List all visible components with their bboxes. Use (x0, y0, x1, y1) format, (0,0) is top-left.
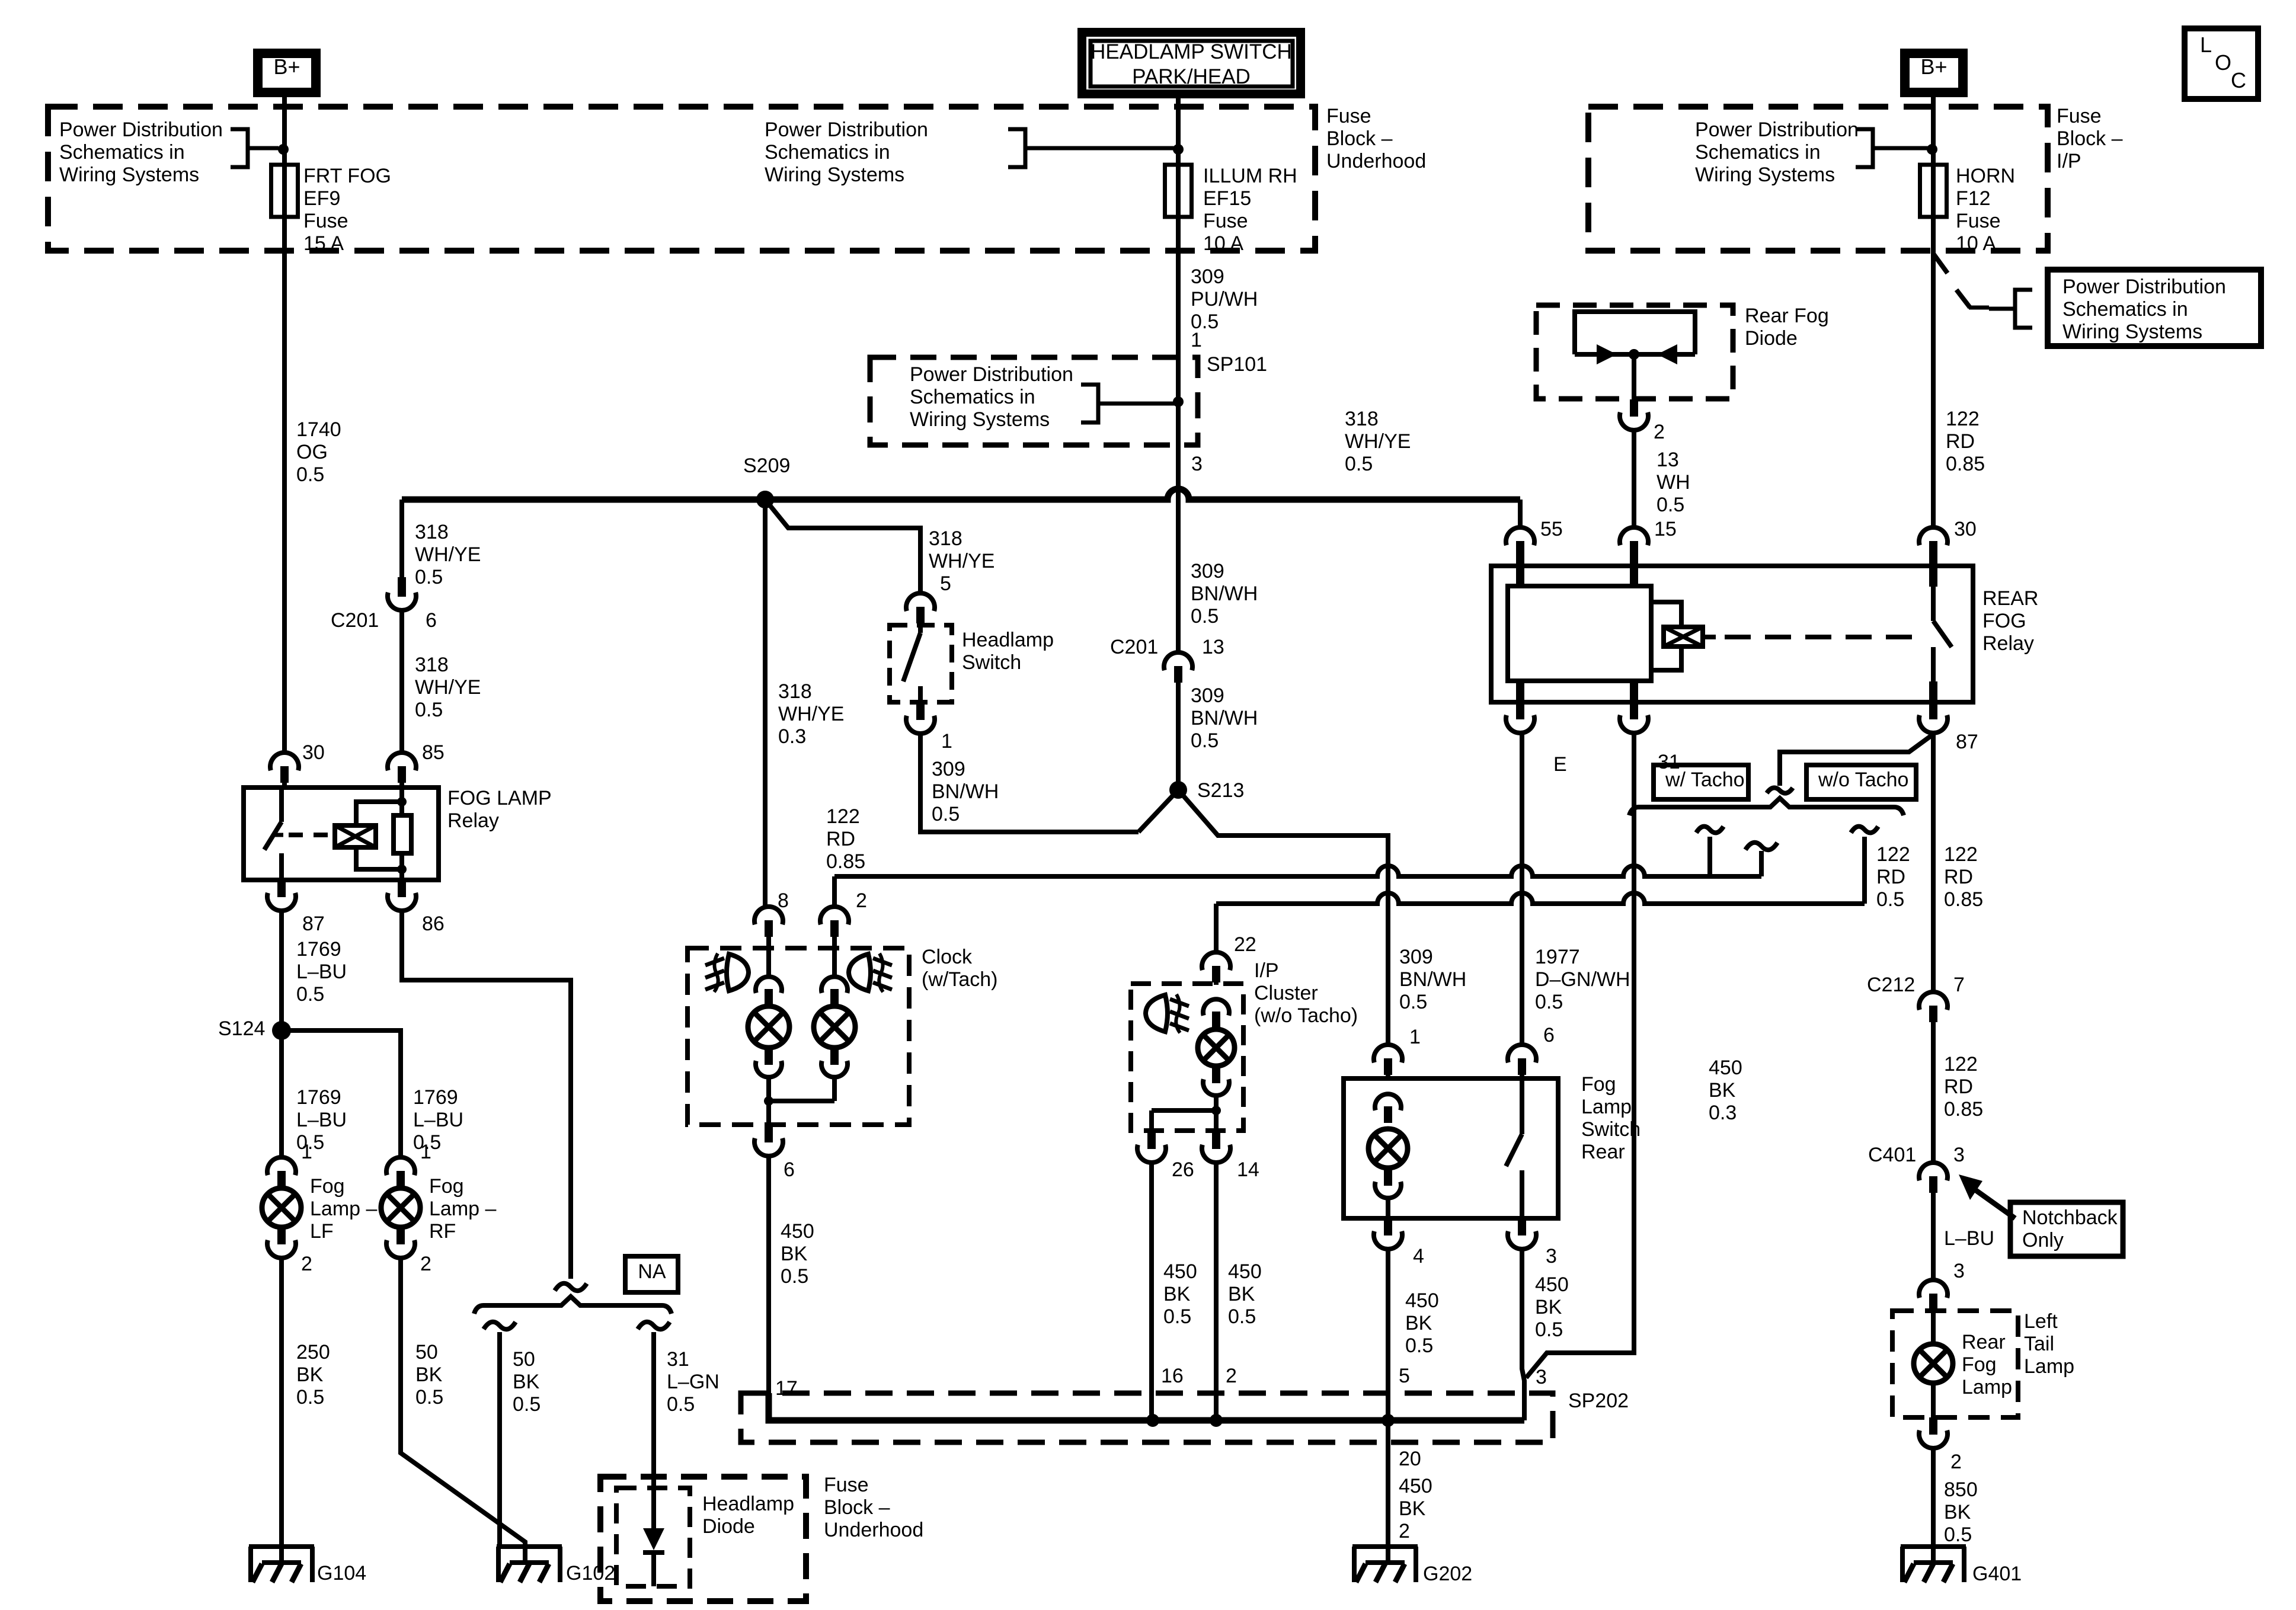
switch contact Headlamp Switch (918, 622, 923, 633)
fog lamp switch rear contact (1520, 1078, 1524, 1134)
svg-text:850: 850 (1944, 1478, 1978, 1501)
svg-text:0.3: 0.3 (778, 725, 806, 748)
svg-text:RF: RF (429, 1220, 456, 1243)
connector pin 14 I/P Cluster (1212, 1132, 1220, 1149)
svg-text:O: O (2215, 50, 2231, 75)
wire 250 BK 0.5 to G104 (279, 1258, 284, 1563)
wire 122 RD 0.85 C212 to C401 (1931, 1022, 1936, 1163)
svg-text:0.5: 0.5 (296, 1386, 324, 1409)
svg-text:450: 450 (1709, 1057, 1742, 1079)
REAR FOG Relay outer box (1491, 566, 1973, 702)
svg-text:6: 6 (1543, 1024, 1555, 1046)
svg-text:Headlamp: Headlamp (702, 1493, 794, 1515)
svg-text:C401: C401 (1868, 1144, 1916, 1166)
wire 450 BK 0.5 from pin 3 to SP202 (1522, 1249, 1524, 1420)
FOG LAMP relay coil wiring + resistor (356, 802, 402, 825)
svg-text:Fuse: Fuse (1956, 210, 2001, 232)
svg-text:6: 6 (784, 1158, 795, 1181)
connector pin 3 Fog Lamp Switch Rear (1518, 1218, 1526, 1235)
wire 1769 L-BU 0.5 from relay 87 to S124 (279, 911, 284, 1030)
svg-text:Power Distribution: Power Distribution (910, 363, 1073, 386)
wire 31 L-GN 0.5 to headlamp diode (651, 1332, 656, 1497)
svg-text:BK: BK (1405, 1312, 1432, 1334)
reference bracket (right switch) (2015, 290, 2032, 328)
svg-text:Notchback: Notchback (2022, 1206, 2118, 1229)
svg-text:1: 1 (941, 730, 952, 753)
svg-text:Fog: Fog (1962, 1353, 1997, 1376)
svg-text:G202: G202 (1423, 1563, 1472, 1585)
wire 309 BN/WH 0.5 from headlamp switch to S213 (920, 734, 1139, 832)
svg-text:309: 309 (1191, 684, 1224, 707)
svg-text:Schematics in: Schematics in (1695, 141, 1821, 164)
wire S209 diagonal to headlamp switch feed (765, 500, 920, 593)
rear fog icon (I/P cluster) (1146, 994, 1189, 1033)
wire clock internal to pin 6 (766, 1101, 771, 1125)
I/P internal junction (1211, 1106, 1221, 1115)
svg-text:BK: BK (1944, 1501, 1971, 1523)
svg-text:RD: RD (826, 828, 855, 850)
svg-text:0.5: 0.5 (1399, 991, 1427, 1013)
svg-text:WH/YE: WH/YE (1345, 430, 1411, 453)
dashed box Headlamp Switch (890, 625, 952, 702)
svg-text:Power Distribution: Power Distribution (1695, 119, 1859, 141)
svg-text:I/P: I/P (2057, 150, 2081, 172)
dashed box splice pack SP101 / power distribution (870, 357, 1198, 445)
svg-text:WH/YE: WH/YE (929, 550, 994, 572)
svg-text:309: 309 (932, 758, 965, 780)
svg-text:B+: B+ (1920, 55, 1947, 79)
fuse EF15 ILLUM RH 10A (1165, 165, 1192, 217)
connector pin 2 Left Tail Lamp (1929, 1417, 1937, 1435)
wire L-BU from C401 to left tail lamp (1931, 1193, 1936, 1280)
svg-text:309: 309 (1399, 946, 1433, 968)
svg-text:8: 8 (778, 889, 789, 912)
svg-text:Wiring Systems: Wiring Systems (2062, 321, 2202, 343)
svg-text:450: 450 (1399, 1475, 1432, 1497)
svg-text:0.5: 0.5 (513, 1393, 541, 1416)
svg-text:26: 26 (1172, 1158, 1194, 1181)
fuse HORN F12 10A (1920, 165, 1947, 217)
break hook 31 L-GN alternative (638, 1322, 670, 1330)
svg-text:2: 2 (1399, 1520, 1410, 1542)
svg-text:L–BU: L–BU (413, 1109, 463, 1131)
svg-text:Fuse: Fuse (1203, 210, 1248, 232)
svg-text:1: 1 (1409, 1026, 1421, 1048)
svg-text:E: E (1553, 753, 1567, 776)
svg-text:50: 50 (513, 1348, 535, 1371)
svg-text:SP202: SP202 (1568, 1390, 1629, 1412)
svg-text:318: 318 (415, 654, 449, 676)
svg-text:0.5: 0.5 (296, 463, 324, 486)
break hook w/ Tacho (1696, 827, 1723, 833)
splice S124 (272, 1021, 291, 1040)
svg-text:0.85: 0.85 (1944, 888, 1983, 911)
svg-text:0.5: 0.5 (667, 1393, 695, 1416)
svg-text:Power Distribution: Power Distribution (2062, 276, 2226, 298)
svg-text:G104: G104 (317, 1562, 366, 1585)
svg-text:Clock: Clock (922, 946, 973, 968)
svg-text:B+: B+ (273, 55, 300, 79)
svg-text:S124: S124 (218, 1017, 265, 1040)
svg-text:Rear: Rear (1581, 1141, 1625, 1163)
rear fog diode left arrow (1597, 344, 1617, 364)
fog lamp switch rear bulb (1375, 1094, 1401, 1110)
svg-text:Fuse: Fuse (824, 1474, 869, 1496)
svg-text:450: 450 (1405, 1289, 1439, 1312)
junction dot at EF9 bracket (278, 144, 289, 155)
svg-text:Diode: Diode (1745, 327, 1798, 350)
svg-text:w/o Tacho: w/o Tacho (1818, 769, 1908, 791)
svg-text:EF15: EF15 (1203, 187, 1251, 210)
svg-text:318: 318 (415, 521, 449, 543)
svg-text:318: 318 (778, 680, 812, 703)
svg-text:3: 3 (1953, 1144, 1965, 1166)
svg-text:0.5: 0.5 (415, 699, 443, 721)
svg-text:Wiring Systems: Wiring Systems (910, 408, 1050, 431)
svg-text:G401: G401 (1972, 1563, 2022, 1585)
LOC legend box (2185, 28, 2258, 99)
in-line connector C201 pin 6 (398, 577, 406, 597)
svg-text:ILLUM RH: ILLUM RH (1203, 165, 1297, 187)
connector pin 1 Fog Lamp Switch Rear (1374, 1045, 1402, 1062)
svg-text:2: 2 (301, 1253, 312, 1275)
clock right bulb branch (832, 950, 837, 977)
splice SP202 bus (769, 1393, 1524, 1420)
connector pin 22 I/P Cluster (1202, 952, 1230, 970)
connector pin 3 Left Tail Lamp (1919, 1280, 1948, 1298)
dashed box Fuse Block - Underhood (bottom) (600, 1477, 806, 1601)
svg-text:Fog: Fog (310, 1175, 345, 1198)
svg-text:LF: LF (310, 1220, 334, 1243)
svg-text:0.5: 0.5 (1191, 729, 1219, 752)
svg-text:C: C (2231, 68, 2246, 92)
svg-text:RD: RD (1946, 430, 1975, 453)
reference bracket Power Distribution (right) (1856, 129, 1873, 167)
connector pin 26 I/P Cluster (1147, 1132, 1156, 1149)
break symbol above NA brace (555, 1283, 587, 1291)
svg-text:S213: S213 (1197, 779, 1244, 802)
wire 122 RD 0.85 horizontal to clock pin 2 (w/ Tacho feed) (834, 866, 1761, 876)
svg-text:Fog: Fog (1581, 1073, 1616, 1096)
clock left bulb branch (766, 950, 771, 977)
lamp Fog Lamp - RF (398, 1187, 403, 1189)
splice SP101 junction dot (1176, 359, 1181, 445)
svg-text:450: 450 (1163, 1260, 1197, 1283)
splice S213 (1169, 781, 1187, 799)
dashed box Clock (w/Tach) (687, 948, 909, 1125)
lamp Fog Lamp - LF (279, 1187, 284, 1189)
svg-text:Relay: Relay (447, 809, 499, 832)
connector pin 8 Clock (754, 907, 783, 924)
svg-text:1977: 1977 (1535, 946, 1580, 968)
wire 309 BN/WH 0.5 from C201-13 to S213 (1176, 683, 1181, 790)
main bus 318 WH/YE from corner to REAR FOG relay (S209 bus) (402, 489, 1520, 500)
svg-text:L–BU: L–BU (296, 1109, 347, 1131)
FOG LAMP Relay box (244, 788, 439, 880)
wire from w/Tacho brace hook down (1707, 837, 1712, 876)
svg-text:0.5: 0.5 (296, 983, 324, 1006)
dashed box Fuse Block - I/P (1588, 107, 2048, 251)
svg-text:REAR: REAR (1982, 587, 2038, 610)
connector pin 5 Headlamp Switch (906, 593, 935, 611)
svg-text:0.5: 0.5 (1228, 1305, 1256, 1328)
w/o Tacho box (1806, 765, 1916, 799)
svg-text:Fog: Fog (429, 1175, 464, 1198)
ground G104 (249, 1544, 314, 1549)
connector pin 30 of FOG LAMP relay (270, 753, 299, 770)
wire 13 WH 0.5 from diode to relay pin 15 (1632, 430, 1636, 527)
svg-text:87: 87 (302, 913, 325, 935)
reference bracket Power Distribution (middle top) (1008, 129, 1025, 167)
svg-text:122: 122 (1876, 843, 1910, 866)
svg-text:HORN: HORN (1956, 165, 2015, 187)
wire S124 branch to right fog lamp column (282, 1030, 401, 1157)
Notchback Only box (2010, 1202, 2123, 1256)
svg-text:318: 318 (929, 527, 962, 550)
svg-text:SP101: SP101 (1207, 353, 1267, 376)
svg-text:450: 450 (781, 1220, 814, 1243)
svg-text:1769: 1769 (296, 938, 341, 961)
svg-text:86: 86 (422, 913, 445, 935)
svg-text:318: 318 (1345, 408, 1379, 430)
wire 318 WH/YE 0.3 from S209 to clock (763, 500, 768, 907)
wire from relay pin 86 to C-pillar break (402, 911, 571, 1279)
dashed box Left Tail Lamp (1892, 1311, 2018, 1417)
svg-text:F12: F12 (1956, 187, 1991, 210)
REAR FOG relay inner box (1508, 586, 1651, 681)
dashed box Rear Fog Diode (1536, 305, 1733, 399)
svg-text:5: 5 (940, 572, 951, 595)
svg-text:Switch: Switch (962, 651, 1021, 674)
svg-text:30: 30 (1954, 518, 1977, 540)
connector pin 85 of FOG LAMP relay (388, 753, 416, 770)
wire 1740 OG 0.5 from fuse EF9 to relay pin 30 (282, 217, 287, 753)
connector pin 6 Clock (765, 1125, 773, 1142)
options brace w/Tacho - w/o Tacho (1629, 798, 1904, 815)
svg-text:Relay: Relay (1982, 632, 2034, 655)
svg-text:31: 31 (667, 1348, 689, 1371)
break hook w/o Tacho (1851, 827, 1878, 833)
svg-text:L–BU: L–BU (1944, 1227, 1994, 1250)
connector pin 30 REAR FOG relay (1919, 527, 1948, 545)
connector pin 6 Fog Lamp Switch Rear (1508, 1045, 1536, 1062)
svg-text:30: 30 (302, 741, 325, 764)
wire S124 down to left fog lamp (279, 1030, 284, 1157)
svg-text:BN/WH: BN/WH (1191, 707, 1258, 729)
svg-text:HEADLAMP SWITCH: HEADLAMP SWITCH (1091, 40, 1292, 63)
svg-text:BK: BK (1399, 1497, 1426, 1520)
svg-text:5: 5 (1399, 1365, 1410, 1387)
svg-text:2: 2 (420, 1253, 431, 1275)
dashed box Fuse Block - Underhood (top) (48, 107, 1315, 251)
svg-text:122: 122 (1944, 843, 1978, 866)
ground G102 (497, 1544, 562, 1549)
svg-text:87: 87 (1956, 731, 1978, 753)
svg-text:Tail: Tail (2024, 1333, 2054, 1355)
connector pin 87 of FOG LAMP relay (277, 880, 286, 897)
svg-text:Power Distribution: Power Distribution (765, 119, 928, 141)
svg-text:0.5: 0.5 (1163, 1305, 1191, 1328)
svg-text:I/P: I/P (1254, 959, 1279, 982)
box Fog Lamp Switch Rear (1344, 1078, 1558, 1218)
connector pin 1 Headlamp Switch (916, 703, 925, 720)
svg-text:L: L (2200, 33, 2212, 57)
wire 309 PU/WH 0.5 below EF15 (1176, 217, 1181, 359)
svg-text:WH/YE: WH/YE (415, 543, 481, 566)
ground G202 (1352, 1544, 1418, 1549)
svg-text:BK: BK (1709, 1079, 1736, 1102)
dashed box splice pack SP202 (741, 1393, 1553, 1442)
svg-text:3: 3 (1191, 453, 1203, 475)
svg-text:L–GN: L–GN (667, 1371, 720, 1393)
wire 318 WH/YE branch from S209 bus to C201-6 (399, 500, 404, 577)
wire 450 BK 0.5 from pin 4 to SP202 (1386, 1249, 1390, 1420)
svg-text:EF9: EF9 (303, 187, 340, 210)
rear fog icon right (clock) (849, 953, 892, 992)
REAR FOG relay coil (box with X) (1664, 627, 1703, 646)
svg-text:Fuse: Fuse (1326, 105, 1371, 127)
svg-text:FRT FOG: FRT FOG (303, 165, 391, 187)
wire 850 BK 0.5 to G401 (1931, 1448, 1936, 1563)
svg-text:1769: 1769 (296, 1086, 341, 1109)
svg-text:Left: Left (2024, 1310, 2058, 1333)
diode Headlamp Diode (651, 1488, 656, 1528)
wire B+ to fuse EF9 (282, 97, 287, 165)
svg-text:BN/WH: BN/WH (1191, 582, 1258, 605)
svg-text:0.5: 0.5 (1535, 991, 1563, 1013)
svg-text:WH/YE: WH/YE (778, 703, 844, 725)
svg-text:Lamp: Lamp (1581, 1096, 1632, 1118)
svg-text:0.5: 0.5 (1535, 1318, 1563, 1341)
svg-text:Diode: Diode (702, 1515, 755, 1538)
svg-text:Schematics in: Schematics in (2062, 298, 2188, 321)
wire 50 BK 0.5 from RF lamp to G102 (401, 1258, 525, 1563)
break curl at end of 309 continuation (1759, 851, 1764, 876)
connector pin 15 REAR FOG relay (1620, 527, 1648, 545)
svg-text:2: 2 (856, 889, 867, 912)
fuse EF9 FRT FOG 15A (271, 165, 298, 217)
connector pin 4 Fog Lamp Switch Rear (1384, 1218, 1392, 1235)
svg-text:0.5: 0.5 (1405, 1334, 1433, 1357)
svg-text:L–BU: L–BU (296, 961, 347, 983)
wire 318 WH/YE 0.5 from C201-6 to relay pin 85 (399, 610, 404, 753)
wire S213 right leg to fog lamp switch pin 1 (1178, 790, 1388, 1045)
svg-text:Power Distribution: Power Distribution (59, 119, 223, 141)
svg-text:RD: RD (1944, 1076, 1973, 1098)
svg-text:50: 50 (415, 1341, 438, 1363)
svg-text:PARK/HEAD: PARK/HEAD (1132, 65, 1251, 88)
svg-text:BN/WH: BN/WH (932, 780, 999, 803)
svg-text:Block –: Block – (824, 1496, 890, 1519)
clock internal junction (764, 1096, 773, 1106)
svg-text:Wiring Systems: Wiring Systems (59, 164, 199, 186)
svg-text:Schematics in: Schematics in (910, 386, 1035, 408)
reference bracket (SP101) (1081, 385, 1098, 422)
svg-text:0.5: 0.5 (1345, 453, 1373, 475)
svg-text:450: 450 (1535, 1273, 1569, 1296)
svg-text:122: 122 (826, 805, 860, 828)
svg-text:(w/o Tacho): (w/o Tacho) (1254, 1004, 1358, 1027)
rear fog diode right arrow (1657, 344, 1677, 364)
FOG LAMP relay coil (box with X) (335, 825, 376, 847)
svg-text:Lamp: Lamp (1962, 1376, 2012, 1398)
svg-text:Wiring Systems: Wiring Systems (1695, 164, 1835, 186)
svg-text:RD: RD (1944, 866, 1973, 888)
solid box Power Distribution Schematics in Wiring Systems (2048, 270, 2261, 346)
svg-text:FOG: FOG (1982, 610, 2026, 632)
svg-text:w/ Tacho: w/ Tacho (1665, 769, 1745, 791)
svg-text:10 A: 10 A (1203, 232, 1243, 255)
dashed box I/P Cluster (w/o Tacho) (1131, 984, 1243, 1131)
svg-text:22: 22 (1234, 933, 1256, 956)
svg-text:13: 13 (1657, 449, 1679, 471)
svg-text:0.5: 0.5 (781, 1265, 808, 1288)
svg-text:Fuse: Fuse (2057, 105, 2102, 127)
svg-text:BK: BK (781, 1243, 808, 1265)
connector pin E REAR FOG relay (1516, 681, 1524, 719)
svg-text:Lamp: Lamp (2024, 1355, 2074, 1378)
svg-text:250: 250 (296, 1341, 330, 1363)
wire 122 RD 0.5 horizontal to I/P cluster pin 22 (w/o Tacho feed) (1216, 893, 1865, 904)
wire 50 BK 0.5 to G102 (497, 1332, 502, 1547)
svg-text:0.5: 0.5 (1876, 888, 1904, 911)
wire 450 BK 0.3 from relay 31 to SP202 (1526, 733, 1634, 1378)
rear fog icon left (clock) (705, 953, 749, 992)
svg-text:G102: G102 (566, 1562, 615, 1585)
svg-text:309: 309 (1191, 265, 1224, 288)
svg-text:0.85: 0.85 (1944, 1098, 1983, 1121)
svg-text:0.5: 0.5 (415, 566, 443, 588)
svg-text:BK: BK (513, 1371, 540, 1393)
svg-text:16: 16 (1161, 1365, 1184, 1387)
options brace with NA (474, 1297, 671, 1314)
component box HEADLAMP SWITCH PARK/HEAD (1077, 28, 1305, 98)
rear fog diode center junction (1629, 349, 1639, 360)
svg-text:S209: S209 (743, 454, 790, 477)
svg-text:1740: 1740 (296, 418, 341, 441)
svg-text:0.5: 0.5 (1657, 494, 1684, 516)
wire from relay 87 to tacho options brace (1780, 734, 1933, 786)
svg-text:D–GN/WH: D–GN/WH (1535, 968, 1630, 991)
svg-text:C201: C201 (1110, 636, 1158, 658)
svg-text:7: 7 (1953, 974, 1965, 996)
svg-text:BK: BK (415, 1363, 443, 1386)
wire 450 BK 0.5 from I/P 26 to SP202 (1149, 1163, 1154, 1420)
svg-text:Lamp –: Lamp – (310, 1198, 377, 1220)
connector pin 86 of FOG LAMP relay (398, 880, 406, 897)
wire 450 BK 2 from SP202 to G202 (1386, 1420, 1390, 1563)
connector pin 2 Fog Lamp RF (396, 1227, 405, 1244)
FOG LAMP relay switch contact (279, 788, 284, 822)
svg-text:BK: BK (1228, 1283, 1255, 1305)
svg-text:122: 122 (1946, 408, 1980, 430)
svg-text:C212: C212 (1867, 974, 1915, 996)
splice S209 (756, 491, 774, 508)
ground G401 (1901, 1544, 1966, 1549)
junction dot at HORN bracket (1927, 144, 1937, 155)
svg-text:15: 15 (1654, 518, 1677, 540)
wire S213 left leg (1139, 790, 1178, 832)
svg-text:0.5: 0.5 (932, 803, 960, 825)
svg-text:2: 2 (1950, 1451, 1962, 1473)
REAR FOG relay mechanical link (dashed) (1703, 635, 1716, 639)
svg-text:BK: BK (1163, 1283, 1191, 1305)
svg-text:0.5: 0.5 (1191, 605, 1219, 628)
in-line connector C201 pin 13 (1164, 652, 1192, 670)
dashed box Headlamp Diode (616, 1488, 690, 1586)
connector pin 1 Fog Lamp LF (267, 1157, 296, 1175)
power symbol B+ (right) (1900, 49, 1968, 97)
